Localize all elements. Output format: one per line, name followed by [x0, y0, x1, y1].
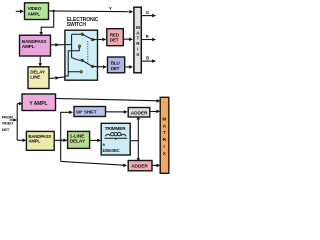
svg-text:BLU: BLU — [111, 61, 121, 66]
wire: y ampl out to matrix2 — [56, 98, 159, 100]
svg-text:AMPL: AMPL — [22, 44, 35, 49]
svg-text:SWITCH: SWITCH — [67, 22, 87, 28]
svg-text:VIDEO: VIDEO — [2, 121, 13, 126]
svg-text:ADDER: ADDER — [131, 164, 148, 170]
wire: switch input bus 2 (from delay line) — [65, 47, 81, 76]
svg-text:B: B — [146, 56, 149, 61]
block 90 SHIFT — [74, 107, 106, 117]
wire: delay line out to switch — [49, 77, 65, 79]
wire: shift out to adder1 — [106, 111, 127, 113]
svg-text:I: I — [137, 47, 138, 52]
svg-text:AMPL: AMPL — [28, 11, 41, 16]
block ADDER 2 — [128, 161, 152, 171]
block BANDPASS AMPL (bottom) — [26, 131, 54, 150]
node: junction on Y line — [52, 10, 55, 13]
block BANDPASS AMPL (top) — [20, 35, 51, 56]
svg-text:ADDER: ADDER — [131, 110, 148, 116]
wire: input arrow to video ampl — [16, 10, 22, 12]
block RED DET — [107, 29, 124, 46]
wire: blu det to matrix1 — [125, 66, 132, 68]
wire: bandpass2 out to 1-line delay — [54, 139, 67, 141]
svg-text:90° SHIFT: 90° SHIFT — [76, 110, 96, 115]
block BLU DET — [108, 57, 125, 73]
block TRIMMER — [101, 123, 130, 155]
block ELECTRONIC SWITCH — [65, 30, 98, 80]
svg-text:DELAY: DELAY — [70, 139, 86, 145]
node: switch contact dots — [81, 33, 84, 36]
wire: switch out 2 to blu det — [92, 65, 106, 68]
gang link dashed — [87, 41, 89, 64]
block 1-LINE DELAY — [68, 131, 90, 148]
svg-text:Y AMPL: Y AMPL — [29, 101, 47, 107]
wire: G output — [141, 15, 154, 17]
switch arm 2 — [82, 60, 92, 66]
wire: R output — [141, 39, 154, 41]
switch arm 1 — [82, 34, 92, 39]
wire: red det to matrix1 — [123, 38, 131, 40]
svg-text:M: M — [162, 116, 166, 121]
trimmer coil symbol — [105, 134, 110, 136]
svg-text:T: T — [163, 130, 166, 135]
svg-text:T: T — [137, 36, 140, 41]
wire: B output — [141, 60, 154, 62]
svg-text:I: I — [164, 144, 165, 149]
svg-text:LINE: LINE — [30, 74, 40, 79]
wire: from video det input tree — [9, 104, 24, 141]
wire: adder1 out to matrix2 — [150, 110, 158, 112]
svg-text:TRIMMER: TRIMMER — [105, 126, 127, 131]
svg-text:FROM: FROM — [2, 115, 14, 120]
wire: switch input bus 1 (from bandpass) — [65, 34, 82, 60]
wire: 1-line delay out to trimmer — [90, 139, 100, 141]
svg-text:DET: DET — [110, 38, 119, 43]
wire: riser up to 90 shift and down to adder2 — [61, 112, 126, 165]
wire: bandpass1 down to delay line — [39, 56, 41, 65]
block VIDEO AMPL — [25, 3, 49, 20]
block MATRIX (bottom) — [160, 97, 169, 173]
wire: Y line video out to matrix1 — [49, 10, 131, 13]
wire: branch down to bandpass ampl 1 — [41, 11, 54, 33]
block DELAY LINE — [28, 67, 49, 89]
svg-text:M: M — [136, 25, 140, 30]
svg-text:100nSEC: 100nSEC — [102, 148, 120, 153]
wire: vertical riser between adders — [137, 119, 139, 160]
block MATRIX (top) — [134, 7, 141, 73]
wire: trimmer out to riser — [130, 140, 138, 142]
block ADDER 1 — [128, 108, 150, 118]
wire: bandpass1 out to switch — [51, 44, 65, 46]
svg-text:AMPL: AMPL — [28, 139, 40, 144]
wire: adder2 out to matrix2 — [152, 164, 158, 166]
node: junction bp2 out — [59, 139, 62, 142]
block Y AMPL — [22, 94, 56, 111]
svg-text:DET: DET — [111, 66, 120, 71]
svg-text:1-LINE: 1-LINE — [70, 134, 85, 140]
wire: switch out 1 to red det — [93, 38, 106, 40]
svg-text:DET: DET — [2, 127, 10, 132]
